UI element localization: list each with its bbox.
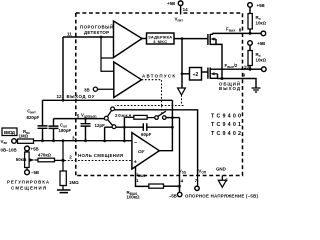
resistor RL2 pull-up bbox=[248, 45, 267, 69]
node offset tie bbox=[62, 139, 65, 142]
svg-text:11: 11 bbox=[67, 32, 72, 37]
wire resistor to S2 bbox=[147, 117, 155, 119]
terminal +5V top bbox=[248, 3, 253, 8]
node discharge wire junction bbox=[123, 126, 126, 129]
svg-text:5: 5 bbox=[77, 113, 80, 118]
earth ground offset bbox=[57, 190, 71, 193]
wire gnd pin bbox=[221, 176, 223, 181]
wire resistor branch vertical bbox=[123, 117, 125, 141]
control dashed net to switches bbox=[115, 95, 184, 114]
svg-text:СМЕЩЕНИЯ: СМЕЩЕНИЯ bbox=[11, 185, 46, 190]
terminal Fout/2 bbox=[250, 68, 262, 70]
potentiometer 50k offset bbox=[16, 146, 39, 175]
wire comp1 lower input loop bbox=[101, 37, 114, 71]
svg-text:ДЕТЕКТОР: ДЕТЕКТОР bbox=[84, 30, 109, 35]
wire pin2 dotted to op-amp bbox=[65, 160, 132, 162]
svg-text:ВХОД: ВХОД bbox=[4, 130, 16, 135]
svg-text:GND: GND bbox=[216, 167, 226, 172]
capacitor 12pF internal bbox=[81, 119, 106, 141]
svg-text:3: 3 bbox=[72, 135, 75, 140]
wire pin14 Vdd bbox=[180, 6, 182, 15]
svg-text:1МΩ: 1МΩ bbox=[19, 134, 29, 139]
resistor charge path bbox=[134, 115, 147, 119]
switch S2 bbox=[155, 111, 166, 119]
terminal +5V Vdd bbox=[178, 1, 183, 6]
svg-text:НОЛЬ СМЕЩЕНИЯ: НОЛЬ СМЕЩЕНИЯ bbox=[78, 153, 123, 158]
svg-text:ВЫХОД: ВЫХОД bbox=[219, 86, 241, 91]
node offset junction bbox=[61, 159, 64, 162]
svg-text:10кΩ: 10кΩ bbox=[256, 21, 267, 26]
svg-text:ОПОРНОЕ НАПРЯЖЕНИЕ (–5В): ОПОРНОЕ НАПРЯЖЕНИЕ (–5В) bbox=[185, 194, 259, 199]
svg-text:ВЫХОД ОУ: ВЫХОД ОУ bbox=[67, 94, 95, 99]
IC boundary dashed box TC9400 bbox=[76, 13, 243, 176]
node divider tap bbox=[181, 72, 184, 75]
control arrow triangle bbox=[178, 88, 186, 95]
comparator U1 threshold detector bbox=[114, 21, 143, 58]
resistor 1M to ground bbox=[60, 160, 79, 189]
node delay output bbox=[181, 37, 184, 40]
terminal Vin bbox=[12, 139, 17, 144]
wire S1 lower contact to discharge node bbox=[105, 126, 125, 128]
svg-text:820pF: 820pF bbox=[27, 115, 40, 120]
resistor 470k bbox=[38, 153, 55, 162]
wire pin11 input horizontal bbox=[63, 36, 114, 38]
wire 470k to node bbox=[55, 159, 64, 161]
capacitor Cref 180pF bbox=[49, 119, 72, 141]
input box label bbox=[2, 128, 17, 136]
node rail 60pF bbox=[171, 126, 174, 129]
wire node up to input wire bbox=[62, 141, 64, 161]
svg-text:3 МКС: 3 МКС bbox=[153, 39, 167, 44]
svg-text:3В: 3В bbox=[84, 87, 90, 92]
terminal Vref -5V bbox=[195, 186, 199, 190]
svg-text:4: 4 bbox=[180, 178, 184, 183]
node junction on pin11 wire bbox=[100, 36, 103, 39]
node Rbias Vss bbox=[178, 185, 181, 188]
svg-text:+: + bbox=[134, 160, 137, 166]
wire S1 to Vref pin7 bbox=[115, 110, 198, 176]
svg-text:1: 1 bbox=[136, 178, 139, 183]
svg-text:РЕГУЛИРОВКА: РЕГУЛИРОВКА bbox=[7, 179, 50, 184]
delay block 3us bbox=[147, 33, 175, 44]
wire Q1 source down common bbox=[216, 44, 222, 78]
op-amp OU integrator bbox=[132, 133, 159, 169]
node 12pF bottom bbox=[84, 139, 87, 142]
node Fout bbox=[249, 32, 252, 35]
svg-text:–5В: –5В bbox=[31, 170, 39, 175]
svg-text:2: 2 bbox=[69, 155, 72, 160]
node 60pF tie bbox=[123, 140, 126, 143]
terminal +5V second bbox=[248, 41, 253, 46]
terminal Fout bbox=[250, 32, 261, 34]
resistor RL1 pull-up bbox=[248, 7, 267, 33]
svg-text:10кΩ: 10кΩ bbox=[256, 58, 267, 63]
wire pin12 amp out long horizontal bbox=[43, 99, 173, 101]
wire comp1 output to delay bbox=[142, 38, 147, 40]
svg-text:12: 12 bbox=[57, 94, 63, 99]
wire pin5 Vref out bbox=[54, 118, 105, 120]
svg-text:+5В: +5В bbox=[167, 1, 175, 6]
svg-text:+5В: +5В bbox=[31, 147, 39, 152]
svg-text:470кΩ: 470кΩ bbox=[38, 153, 52, 158]
svg-text:50кΩ: 50кΩ bbox=[16, 157, 27, 162]
wire Fout/2 from Q2 drain bbox=[222, 68, 250, 70]
svg-text:180pF: 180pF bbox=[59, 128, 72, 133]
svg-text:+5В: +5В bbox=[257, 3, 265, 8]
svg-text:14: 14 bbox=[183, 7, 189, 12]
node Fout/2 bbox=[249, 68, 252, 71]
svg-text:÷2: ÷2 bbox=[193, 72, 199, 78]
svg-text:+5В: +5В bbox=[257, 41, 265, 46]
divide-by-2 block bbox=[190, 68, 202, 81]
wire delay output down bbox=[181, 39, 183, 88]
wire divider output to Q2 gate bbox=[202, 71, 208, 73]
wire pin4 Vss bbox=[179, 118, 181, 193]
wire comp2 output dotted bbox=[142, 80, 162, 106]
wire Q1 drain to Fout bbox=[213, 32, 250, 35]
svg-text:−: − bbox=[134, 141, 137, 147]
resistor Rbias 100k bbox=[127, 184, 180, 199]
wire delay output to Q1 gate bbox=[174, 38, 207, 40]
transistor Q1 output mosfet bbox=[208, 34, 216, 45]
transistor Q2 output mosfet bbox=[208, 68, 222, 79]
svg-text:ОУ: ОУ bbox=[138, 149, 145, 154]
wire S2 to Vss corner bbox=[166, 117, 179, 119]
wire vertical pin11 to pin12 node bbox=[62, 37, 64, 100]
resistor Rin 1MOm bbox=[18, 129, 34, 144]
wire to divider input bbox=[182, 73, 190, 75]
svg-text:–5В: –5В bbox=[169, 194, 177, 199]
wire amp out rail vertical bbox=[159, 100, 172, 150]
node rail switch2 bbox=[171, 116, 174, 119]
svg-text:ПОРОГОВЫЙ: ПОРОГОВЫЙ bbox=[80, 25, 113, 30]
wire input node pin3 bbox=[34, 140, 132, 142]
svg-text:0В–10В: 0В–10В bbox=[1, 147, 17, 152]
svg-text:9: 9 bbox=[243, 72, 246, 77]
earth ground output common bbox=[252, 88, 261, 92]
svg-text:12pF: 12pF bbox=[95, 123, 106, 128]
svg-text:60pF: 60pF bbox=[141, 132, 152, 137]
wire to resistor bbox=[124, 116, 133, 118]
ground symbol triangle bbox=[218, 180, 226, 187]
node 12pF top bbox=[84, 117, 87, 120]
svg-text:1МΩ: 1МΩ bbox=[69, 180, 79, 185]
node Cint bottom bbox=[41, 139, 44, 142]
capacitor 60pF integrator bbox=[124, 123, 172, 137]
node C180 bottom bbox=[52, 139, 55, 142]
wire discharge corner down to input bbox=[104, 127, 106, 141]
node pin11 tie bbox=[62, 99, 65, 102]
node discharge on input wire bbox=[103, 140, 106, 143]
svg-text:8: 8 bbox=[239, 27, 242, 32]
wire pin1 Ibias bbox=[136, 166, 149, 186]
wire pin9 output common bbox=[218, 79, 257, 88]
comparator U2 self-start bbox=[114, 62, 142, 98]
capacitor Cint 820pF bbox=[27, 100, 48, 140]
3V reference terminal bbox=[84, 87, 114, 92]
svg-text:100кΩ: 100кΩ bbox=[127, 194, 141, 199]
svg-text:АВТОПУСК: АВТОПУСК bbox=[142, 73, 175, 78]
switch S1 changeover bbox=[104, 107, 116, 129]
terminal -5V bbox=[178, 192, 182, 196]
label TC9400 list bbox=[211, 114, 241, 137]
node common source bbox=[221, 77, 224, 80]
